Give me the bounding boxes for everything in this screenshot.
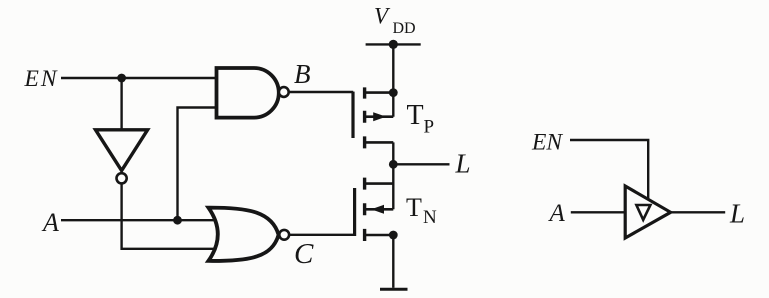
svg-text:T: T (407, 100, 424, 131)
svg-text:N: N (423, 207, 437, 228)
svg-text:A: A (548, 200, 566, 227)
svg-text:EN: EN (24, 66, 59, 92)
svg-text:L: L (729, 199, 745, 229)
svg-text:P: P (424, 117, 435, 138)
svg-text:B: B (294, 59, 311, 89)
svg-text:C: C (294, 238, 314, 270)
svg-text:EN: EN (531, 130, 563, 156)
svg-text:DD: DD (393, 20, 416, 37)
svg-text:T: T (406, 193, 422, 222)
svg-text:A: A (41, 208, 59, 237)
svg-text:L: L (455, 149, 471, 179)
